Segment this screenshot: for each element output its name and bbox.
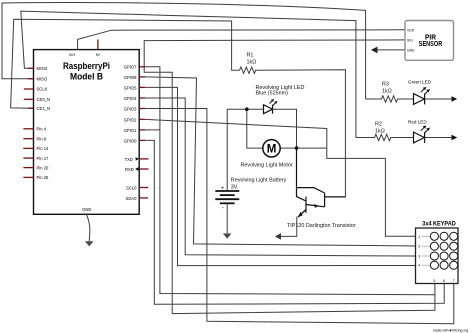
svg-text:CE0_N: CE0_N <box>37 97 51 102</box>
svg-text:Pin 4: Pin 4 <box>37 127 47 132</box>
svg-text:TXD: TXD <box>125 157 133 162</box>
svg-text:Pin 14: Pin 14 <box>37 146 50 151</box>
svg-text:2: 2 <box>418 245 420 249</box>
svg-text:3: 3 <box>418 255 420 259</box>
svg-text:1kΩ: 1kΩ <box>247 60 257 66</box>
svg-text:SIG: SIG <box>407 38 413 42</box>
svg-text:GND: GND <box>82 207 91 212</box>
svg-text:3V3: 3V3 <box>69 53 75 57</box>
svg-text:+: + <box>221 186 224 192</box>
svg-text:Revolving Light Motor: Revolving Light Motor <box>241 163 293 169</box>
svg-text:TIP120 Darlington Transistor: TIP120 Darlington Transistor <box>287 223 356 229</box>
svg-text:SDA0: SDA0 <box>126 196 138 201</box>
svg-text:GPIO2: GPIO2 <box>124 118 137 123</box>
svg-text:RaspberryPi: RaspberryPi <box>63 61 110 71</box>
svg-text:Revolving Light Battery: Revolving Light Battery <box>231 177 287 183</box>
svg-text:Pin 9: Pin 9 <box>37 137 47 142</box>
svg-text:Pin 20: Pin 20 <box>37 165 50 170</box>
svg-text:GPIO5: GPIO5 <box>124 86 137 91</box>
svg-text:1kΩ: 1kΩ <box>382 89 392 95</box>
svg-text:6: 6 <box>443 279 445 283</box>
svg-text:1kΩ: 1kΩ <box>375 129 385 135</box>
svg-text:7: 7 <box>453 279 455 283</box>
svg-text:5: 5 <box>433 279 435 283</box>
svg-text:GPIO4: GPIO4 <box>124 96 137 101</box>
svg-text:MISO: MISO <box>37 76 48 81</box>
svg-text:GPIO7: GPIO7 <box>124 65 137 70</box>
svg-text:Pin 25: Pin 25 <box>37 175 50 180</box>
svg-text:R2: R2 <box>375 122 382 128</box>
svg-text:CE1_N: CE1_N <box>37 106 51 111</box>
svg-text:4: 4 <box>418 264 420 268</box>
svg-text:3V: 3V <box>231 184 238 190</box>
svg-text:GPIO3: GPIO3 <box>124 107 137 112</box>
svg-text:GPIO0: GPIO0 <box>124 139 137 144</box>
svg-text:Red LED: Red LED <box>408 120 427 125</box>
svg-text:Blue (525nm): Blue (525nm) <box>256 91 289 97</box>
svg-text:Pin 17: Pin 17 <box>37 156 50 161</box>
svg-text:GPIO6: GPIO6 <box>124 75 137 80</box>
svg-text:Model B: Model B <box>70 72 103 82</box>
svg-text:SCL0: SCL0 <box>126 186 137 191</box>
svg-text:M: M <box>267 144 277 156</box>
svg-text:SENSOR: SENSOR <box>419 41 442 48</box>
svg-text:SCLK: SCLK <box>37 87 48 92</box>
svg-text:1: 1 <box>418 235 420 239</box>
svg-text:5V: 5V <box>96 53 101 57</box>
svg-text:GND: GND <box>407 48 415 52</box>
svg-text:GPIO1: GPIO1 <box>124 128 137 133</box>
svg-text:R3: R3 <box>382 82 389 88</box>
svg-text:MOSI: MOSI <box>37 66 48 71</box>
svg-text:-: - <box>222 205 224 211</box>
svg-text:VDD: VDD <box>407 28 415 32</box>
svg-text:3x4 KEYPAD: 3x4 KEYPAD <box>422 222 456 228</box>
svg-text:Green LED: Green LED <box>408 80 432 85</box>
svg-text:R1: R1 <box>247 53 254 59</box>
svg-text:made with ■ fritzing.org: made with ■ fritzing.org <box>433 329 468 333</box>
svg-text:RXD: RXD <box>125 167 134 172</box>
